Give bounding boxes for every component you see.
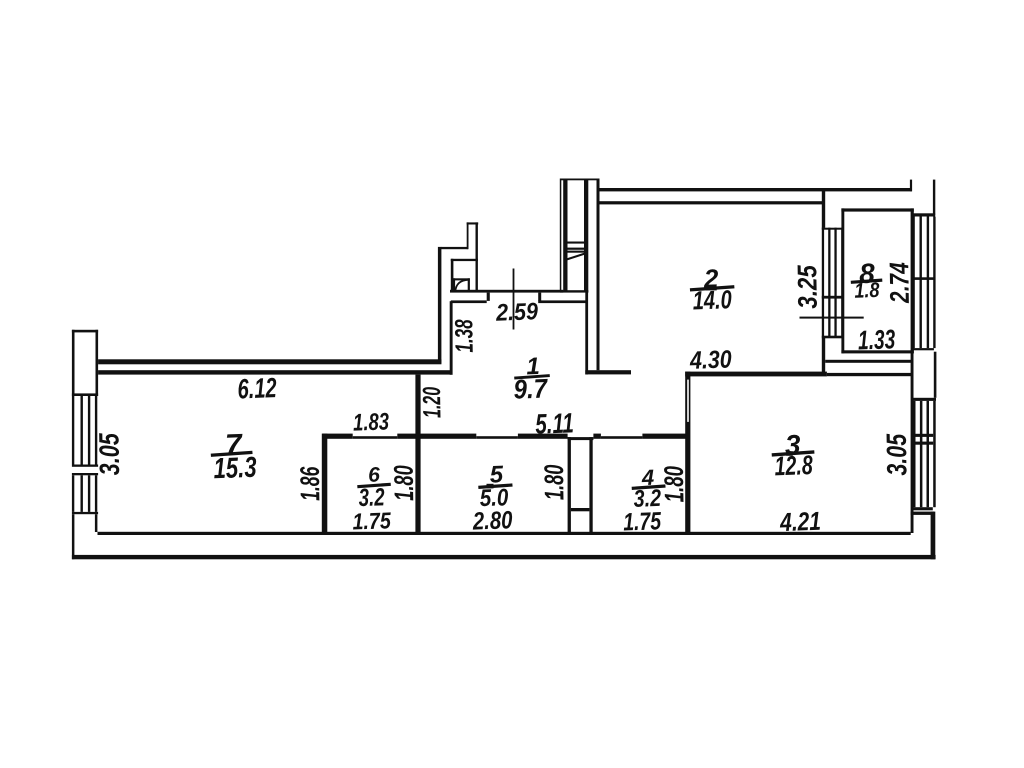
svg-text:3.25: 3.25: [792, 264, 823, 309]
svg-text:1.75: 1.75: [623, 507, 663, 536]
svg-text:15.3: 15.3: [213, 452, 257, 485]
svg-text:1.80: 1.80: [389, 465, 420, 501]
svg-text:1.75: 1.75: [352, 507, 392, 534]
svg-text:1.8: 1.8: [854, 279, 880, 303]
svg-text:2.74: 2.74: [884, 262, 915, 304]
svg-text:6.12: 6.12: [237, 372, 277, 404]
svg-text:4.21: 4.21: [779, 506, 822, 537]
svg-text:12.8: 12.8: [774, 450, 813, 481]
svg-text:2.59: 2.59: [495, 298, 539, 327]
svg-text:1.83: 1.83: [353, 408, 390, 436]
svg-text:1.80: 1.80: [659, 466, 690, 503]
svg-text:2.80: 2.80: [471, 506, 513, 535]
svg-text:9.7: 9.7: [513, 373, 549, 404]
svg-text:3.05: 3.05: [881, 433, 913, 476]
svg-text:1.38: 1.38: [450, 319, 479, 353]
svg-text:1.33: 1.33: [857, 324, 895, 355]
svg-text:1.20: 1.20: [418, 387, 447, 419]
svg-text:1.80: 1.80: [539, 464, 570, 500]
svg-text:4.30: 4.30: [689, 345, 733, 374]
svg-text:5.11: 5.11: [535, 407, 575, 439]
svg-text:1.86: 1.86: [295, 466, 326, 501]
svg-text:3.05: 3.05: [93, 433, 125, 476]
svg-text:14.0: 14.0: [692, 284, 732, 315]
